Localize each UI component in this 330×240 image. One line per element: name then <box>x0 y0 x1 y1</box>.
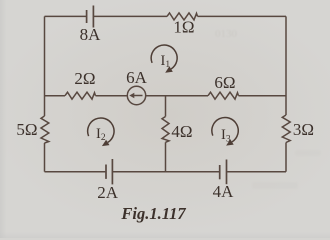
battery 2A (long plate) <box>111 159 113 184</box>
resistor 1ohm zigzag <box>167 13 198 20</box>
wire bottom-left: bottom-left corner to battery 2A <box>45 171 106 173</box>
svg-text:5Ω: 5Ω <box>16 120 37 139</box>
battery 8A (long plate) <box>92 6 94 28</box>
svg-text:6A: 6A <box>126 68 148 87</box>
resistor 2ohm zigzag <box>65 92 96 99</box>
svg-text:4A: 4A <box>213 182 235 201</box>
current source 6A arrowhead <box>129 93 134 99</box>
svg-text:Fig.1.117: Fig.1.117 <box>120 204 186 223</box>
svg-text:6Ω: 6Ω <box>214 73 235 92</box>
svg-text:8A: 8A <box>80 25 102 44</box>
battery 8A (short plate) <box>86 10 88 23</box>
svg-text:4Ω: 4Ω <box>171 122 192 141</box>
wire bottom-middle: battery 2A to battery 4A <box>113 171 219 173</box>
wire left upper: top-left corner down to resistor 5ohm <box>44 16 46 116</box>
svg-text:1Ω: 1Ω <box>173 17 194 36</box>
wire top-right: resistor 1ohm to top-right corner <box>198 15 287 17</box>
mesh current I1 arrowhead <box>165 66 173 72</box>
wire top-middle: battery 8A to resistor R 1ohm <box>94 15 167 17</box>
wire middle: current source 6A to resistor 6ohm <box>146 95 208 97</box>
mesh current I2 arrowhead <box>102 140 110 146</box>
svg-text:I1: I1 <box>161 53 171 70</box>
mesh current I3 arc <box>212 117 238 141</box>
svg-text:I3: I3 <box>221 127 231 144</box>
resistor 5ohm zigzag <box>41 116 49 143</box>
wire center vertical upper: middle node to resistor 4ohm <box>165 96 167 117</box>
wire bottom-right: battery 4A to bottom-right corner <box>227 171 286 173</box>
wire center vertical lower: resistor 4ohm to bottom rail <box>165 142 167 171</box>
battery 4A (short plate) <box>219 165 221 179</box>
wire middle: resistor 2ohm to current source 6A <box>96 95 128 97</box>
svg-text:2A: 2A <box>97 183 119 202</box>
current source 6A circle <box>127 86 145 104</box>
wire middle-right: resistor 6ohm to right rail <box>239 95 287 97</box>
resistor 3ohm zigzag <box>282 115 290 143</box>
mesh current I3 arrowhead <box>226 139 234 145</box>
wire top-left: top-left corner to battery 8A <box>45 15 87 17</box>
svg-text:0​1​3​0: 0​1​3​0 <box>215 28 238 40</box>
mesh current I1 arc <box>151 45 177 69</box>
svg-text:I2: I2 <box>96 126 106 143</box>
svg-text:2Ω: 2Ω <box>74 69 95 88</box>
battery 2A (short plate) <box>105 165 107 179</box>
svg-text:3Ω: 3Ω <box>293 120 314 139</box>
resistor 6ohm zigzag <box>208 92 239 99</box>
resistor 4ohm zigzag <box>162 117 169 143</box>
wire left lower: resistor 5ohm to bottom-left corner <box>44 143 46 172</box>
mesh current I2 arc <box>88 118 114 142</box>
wire middle-left: left rail to resistor 2ohm <box>45 95 66 97</box>
wire right lower: resistor 3ohm to bottom-right corner <box>285 143 287 172</box>
wire right upper: top-right corner down to resistor 3ohm <box>285 16 287 115</box>
battery 4A (long plate) <box>226 160 228 185</box>
faint page bleed-through artifacts <box>215 28 321 189</box>
current source 6A arrow shaft <box>133 95 143 97</box>
